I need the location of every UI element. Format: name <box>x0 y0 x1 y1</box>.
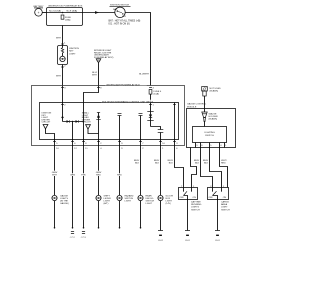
svg-text:BLK: BLK <box>155 163 160 165</box>
wire gauge pin w209 to box B <box>210 148 222 188</box>
fuse symbol in under-hood box <box>61 15 64 19</box>
svg-text:UNDER-HOOD FUSE/RELAY BOX: UNDER-HOOD FUSE/RELAY BOX <box>48 4 83 7</box>
wire ignition switch to right corner and down <box>126 13 151 86</box>
svg-text:BLU/WHT: BLU/WHT <box>139 74 150 76</box>
wire label RED <box>52 171 58 176</box>
svg-text:BLK: BLK <box>204 163 209 165</box>
svg-text:C713: C713 <box>81 237 87 239</box>
svg-text:+: + <box>38 11 40 15</box>
fuse 4 in under-dash box <box>149 90 162 96</box>
inner box pins <box>196 143 225 148</box>
wire fuse to MICU <box>150 94 152 102</box>
wire below bulb B3 <box>119 201 121 228</box>
svg-text:(14V): (14V) <box>166 203 172 205</box>
contact stub x119 <box>118 114 122 140</box>
svg-text:BAT: BAT <box>113 8 118 11</box>
svg-text:MODULE: MODULE <box>187 106 197 108</box>
switch box A <box>179 188 198 200</box>
node diamond <box>61 116 64 119</box>
pin tick x150 MICU top <box>149 104 152 106</box>
svg-text:BLK: BLK <box>135 163 140 165</box>
wire battery to under-hood box <box>43 12 47 14</box>
wire below bulb B1 <box>54 201 56 228</box>
connector C1 <box>202 87 221 97</box>
svg-text:BLK: BLK <box>195 163 200 165</box>
pin 4 tick x150 at under-dash top <box>149 87 152 89</box>
svg-text:LIGHT: LIGHT <box>69 53 76 55</box>
wire w72 <box>72 140 74 228</box>
wire w54 <box>54 140 56 196</box>
junction to pin x72 <box>72 121 73 122</box>
svg-text:ON: ON <box>193 197 197 199</box>
diode row <box>63 120 84 123</box>
driver triangle 2 <box>86 125 99 134</box>
wire below bulb B2 <box>98 201 100 228</box>
svg-text:MULTIPLEX INTEGRATED CONTROL U: MULTIPLEX INTEGRATED CONTROL UNIT (MICU) <box>102 100 153 103</box>
svg-text:OFF: OFF <box>209 197 214 199</box>
svg-text:(BLANK): (BLANK) <box>209 118 218 121</box>
wire connector C2 to inner box <box>204 122 206 127</box>
connector marks under w72 <box>70 232 76 240</box>
connector from fuse 35 <box>94 50 114 62</box>
svg-text:GRN: GRN <box>70 175 75 177</box>
wire x83 inside MICU down <box>83 103 85 140</box>
wire box to ignition switch with arrow <box>83 11 115 14</box>
under-dash fuse/relay box <box>32 83 185 146</box>
ign feed chain x150 <box>147 103 163 140</box>
key light driver text <box>42 113 52 124</box>
bulb B1 <box>52 195 69 206</box>
junction dot at x62 <box>62 12 64 14</box>
wire gauge pin w190 Z-route to box A <box>191 148 197 188</box>
svg-text:CIRCUIT: CIRCUIT <box>42 122 52 124</box>
wire w160 <box>160 140 162 196</box>
svg-text:(A/T): (A/T) <box>104 202 109 205</box>
wire label PNK <box>81 173 87 176</box>
contact stub x140 <box>139 114 143 140</box>
terminal dots <box>54 227 142 229</box>
wire label w200 <box>194 160 200 165</box>
svg-text:DAYTIME: DAYTIME <box>191 201 201 204</box>
svg-text:WHT: WHT <box>52 175 58 177</box>
wire key light down to MICU <box>62 65 64 103</box>
box A below wire <box>187 200 189 231</box>
wire label GRN <box>70 173 76 176</box>
wire key light inside MICU <box>62 103 64 122</box>
svg-text:No.9 (40A): No.9 (40A) <box>67 10 78 13</box>
bulb B2 <box>96 195 111 205</box>
wire w140 <box>140 140 142 196</box>
svg-text:(10A): (10A) <box>154 93 160 96</box>
svg-text:No.4 (120A): No.4 (120A) <box>49 10 61 13</box>
wire down from under-hood box at x62 <box>62 26 64 46</box>
svg-text:G501: G501 <box>185 240 191 242</box>
gauge inner box <box>193 127 227 143</box>
under-dash bottom pin numbers <box>56 148 178 150</box>
wire gauge pin w200 to box B <box>201 148 213 188</box>
svg-text:UNDER-DASH FUSE/RELAY BOX: UNDER-DASH FUSE/RELAY BOX <box>106 84 140 87</box>
svg-text:SWITCH: SWITCH <box>221 209 230 211</box>
MICU bottom pin numbers <box>56 143 178 145</box>
switch box B <box>208 188 229 200</box>
svg-text:GAUGE CONTROL: GAUGE CONTROL <box>187 103 207 106</box>
small light driver text <box>82 112 92 124</box>
wire x174 inside MICU <box>174 103 176 140</box>
svg-text:IG1 : HOT IN ON (II): IG1 : HOT IN ON (II) <box>109 23 130 25</box>
svg-text:G501: G501 <box>215 240 221 242</box>
wire label w174 <box>168 160 174 165</box>
inner box pin numbers <box>196 145 227 147</box>
wire w119 <box>119 140 121 196</box>
pin tick x62 MICU top <box>61 104 64 106</box>
wire from connector down, elbow left into MICU <box>84 62 99 103</box>
svg-text:WHT: WHT <box>92 75 98 77</box>
box A pin numbers <box>181 186 195 188</box>
MICU box <box>40 100 179 140</box>
svg-text:BAT : HOT AT ALL TIMES (+B): BAT : HOT AT ALL TIMES (+B) <box>109 20 141 23</box>
pin 1 tick <box>61 43 64 45</box>
box B pin numbers <box>210 186 225 188</box>
gauge box label <box>187 103 207 109</box>
svg-text:WHT: WHT <box>56 37 62 39</box>
ground for bulb B5 <box>158 231 164 243</box>
svg-text:LIGHTING: LIGHTING <box>204 132 215 134</box>
wire w174 elbow to box A <box>175 140 184 188</box>
svg-text:C712: C712 <box>70 237 76 239</box>
bulb B4 <box>138 195 155 206</box>
svg-text:WHT: WHT <box>56 76 62 78</box>
wire label RED4 <box>154 160 160 165</box>
svg-text:LIGHT: LIGHT <box>146 203 153 205</box>
wire w98 <box>98 140 100 196</box>
svg-text:RED: RED <box>117 175 122 177</box>
wire label RED3 <box>134 160 140 165</box>
contact stub x98 <box>96 113 100 140</box>
pin tick x62 at under-dash top <box>61 87 64 89</box>
box B label <box>221 201 230 212</box>
ground below box A <box>185 231 191 243</box>
ground below box B <box>215 231 221 243</box>
bulb B5 <box>158 195 174 205</box>
svg-text:PNK: PNK <box>81 175 86 177</box>
pin tick x174 MICU top <box>173 104 176 106</box>
wire label YEL <box>92 72 98 77</box>
wire gauge pin w219 <box>220 148 228 188</box>
box A label <box>191 201 202 212</box>
ignition key light assembly <box>58 46 80 65</box>
svg-text:G502: G502 <box>158 240 164 242</box>
wire label w209 <box>203 160 209 165</box>
wire label GRN/RED <box>96 171 102 176</box>
wire connector C1 down <box>204 96 206 112</box>
svg-text:ON: ON <box>223 197 227 199</box>
connector C2 <box>202 112 218 122</box>
svg-text:SWITCH: SWITCH <box>205 135 214 137</box>
under-hood fuse/relay box <box>47 4 83 25</box>
wire w83 <box>83 140 85 228</box>
driver triangle 1 <box>43 125 54 140</box>
svg-text:CARGO: CARGO <box>221 201 229 204</box>
svg-text:(BLANK): (BLANK) <box>210 90 219 93</box>
gauge outer box <box>187 109 236 148</box>
svg-text:LIGHT: LIGHT <box>125 201 132 203</box>
MICU bottom pin ticks <box>53 141 176 143</box>
svg-text:OFF: OFF <box>180 197 185 199</box>
pin 2 tick below key light <box>61 66 64 68</box>
bulb B3 <box>117 195 134 203</box>
box B below wire <box>217 200 219 231</box>
pin tick x98 at under-dash top <box>97 87 100 89</box>
battery G1 <box>34 5 44 16</box>
connector marks under w83 <box>81 232 87 240</box>
svg-text:GAUGE): GAUGE) <box>60 202 69 205</box>
wire below bulb B5 to ground <box>160 201 162 231</box>
wire through under-hood box <box>47 12 83 14</box>
svg-text:SWITCH: SWITCH <box>191 209 200 211</box>
svg-text:BLK: BLK <box>169 163 174 165</box>
svg-text:RED: RED <box>221 163 226 165</box>
wire label w219 <box>221 160 227 165</box>
svg-text:RED: RED <box>96 175 101 177</box>
svg-text:(15A): (15A) <box>65 19 71 22</box>
ignition switch SW1 <box>109 5 141 26</box>
svg-text:GAUGE: GAUGE <box>209 113 217 116</box>
wire label RED2 <box>117 173 123 176</box>
wire below bulb B4 <box>140 201 142 228</box>
svg-text:AREA: AREA <box>221 203 227 206</box>
